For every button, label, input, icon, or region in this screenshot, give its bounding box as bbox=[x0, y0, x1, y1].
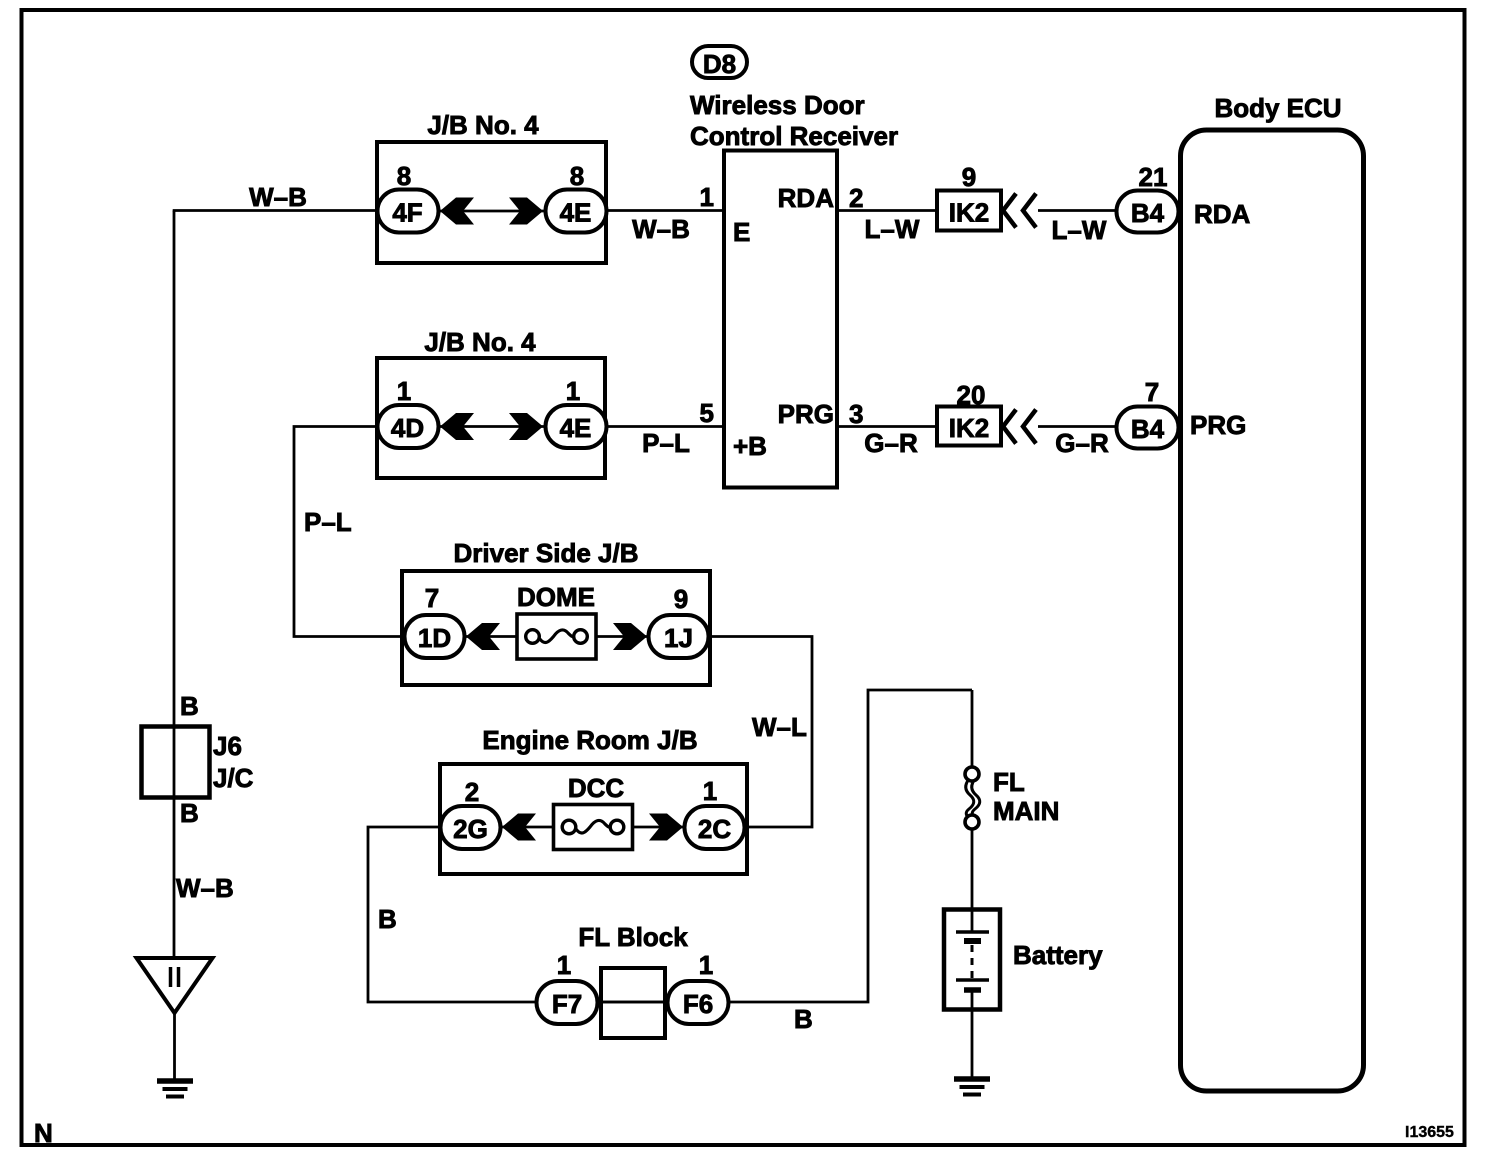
svg-text:8: 8 bbox=[570, 161, 584, 191]
Body ECU box bbox=[1181, 130, 1364, 1091]
wire W-B ground bus: left vertical run bbox=[173, 211, 176, 959]
svg-text:4D: 4D bbox=[391, 413, 424, 443]
svg-text:W–B: W–B bbox=[176, 873, 234, 903]
chevrons into IK2 (row 2) bbox=[1003, 410, 1036, 444]
fusible link FL MAIN bbox=[965, 767, 1059, 829]
arrow out of 1D bbox=[466, 623, 500, 650]
wire G-R from B4 to chevrons bbox=[1038, 425, 1118, 428]
svg-text:Engine Room J/B: Engine Room J/B bbox=[482, 725, 697, 755]
svg-text:1: 1 bbox=[699, 950, 713, 980]
ground (battery) bbox=[954, 1079, 990, 1095]
wire inside Driver Side J/B bbox=[463, 635, 650, 638]
wire W-L from 1J down to 2C bbox=[708, 637, 812, 828]
svg-text:I13655: I13655 bbox=[1405, 1124, 1454, 1141]
wire from battery to ground bbox=[971, 992, 974, 1079]
svg-text:Wireless Door: Wireless Door bbox=[690, 90, 865, 120]
svg-text:B: B bbox=[794, 1004, 813, 1034]
svg-text:1: 1 bbox=[703, 776, 717, 806]
svg-text:5: 5 bbox=[700, 398, 714, 428]
connector code D8 bbox=[692, 46, 747, 79]
battery bbox=[944, 910, 1103, 1010]
svg-text:J6: J6 bbox=[213, 731, 242, 761]
arrow out of 2G bbox=[502, 814, 536, 841]
svg-text:Body ECU: Body ECU bbox=[1214, 93, 1341, 123]
svg-text:8: 8 bbox=[397, 161, 411, 191]
svg-text:Control Receiver: Control Receiver bbox=[690, 121, 898, 151]
connector B4 (PRG) bbox=[1117, 407, 1179, 449]
svg-text:2G: 2G bbox=[453, 814, 488, 844]
svg-text:1: 1 bbox=[566, 376, 580, 406]
svg-text:G–R: G–R bbox=[864, 428, 918, 458]
chevrons into IK2 (row 1) bbox=[1003, 194, 1036, 228]
svg-text:3: 3 bbox=[849, 399, 863, 429]
connector 4F bbox=[378, 190, 439, 233]
wire from node down to FL MAIN bbox=[971, 690, 974, 768]
wire B from 2G down to FL block F7 bbox=[368, 827, 537, 1002]
svg-text:9: 9 bbox=[674, 584, 688, 614]
svg-text:P–L: P–L bbox=[642, 428, 690, 458]
svg-text:E: E bbox=[733, 217, 750, 247]
ground point II triangle bbox=[137, 958, 213, 1013]
wire P-L from 4D down to Driver Side J/B bbox=[294, 427, 405, 637]
svg-text:DOME: DOME bbox=[517, 582, 595, 612]
wire L-W from B4 to chevrons bbox=[1038, 209, 1118, 212]
arrow into 1J bbox=[613, 623, 647, 650]
svg-text:B4: B4 bbox=[1131, 198, 1165, 228]
connector F7 bbox=[537, 981, 598, 1024]
svg-text:P–L: P–L bbox=[304, 507, 352, 537]
svg-text:4E: 4E bbox=[560, 413, 592, 443]
svg-text:L–W: L–W bbox=[1052, 215, 1107, 245]
fusible link block FL Block bbox=[578, 922, 688, 952]
svg-text:B: B bbox=[180, 798, 199, 828]
svg-text:F6: F6 bbox=[683, 989, 713, 1019]
arrow into 2C bbox=[649, 814, 683, 841]
svg-text:RDA: RDA bbox=[1194, 199, 1251, 229]
wire L-W from receiver pin 2 to IK2 bbox=[837, 209, 937, 212]
svg-text:21: 21 bbox=[1139, 162, 1168, 192]
junction connector J6 J/C bbox=[142, 727, 254, 798]
svg-text:2C: 2C bbox=[698, 814, 731, 844]
svg-text:4E: 4E bbox=[560, 198, 592, 228]
svg-text:9: 9 bbox=[962, 162, 976, 192]
svg-text:F7: F7 bbox=[552, 989, 582, 1019]
FL block body bbox=[601, 968, 665, 1038]
svg-text:PRG: PRG bbox=[1190, 410, 1246, 440]
wire G-R from receiver pin 3 to IK2 bbox=[837, 425, 937, 428]
wire from triangle to ground bbox=[173, 1013, 176, 1081]
svg-text:Battery: Battery bbox=[1013, 940, 1103, 970]
splice IK2 (20) bbox=[937, 380, 1001, 446]
svg-text:1D: 1D bbox=[418, 623, 451, 653]
svg-text:D8: D8 bbox=[703, 49, 736, 79]
arrow into 4F bbox=[440, 198, 474, 225]
svg-text:1J: 1J bbox=[664, 623, 693, 653]
svg-text:1: 1 bbox=[557, 950, 571, 980]
svg-text:B: B bbox=[378, 904, 397, 934]
arrow into 4E (second) bbox=[509, 413, 543, 440]
wire W-B from ground bus to connector 4F bbox=[173, 209, 378, 212]
wire B from F6 up to battery node bbox=[728, 690, 972, 1002]
svg-text:N: N bbox=[34, 1118, 53, 1148]
receiver body box U:D8 bbox=[724, 151, 837, 488]
wire inside Engine Room J/B bbox=[500, 826, 686, 829]
svg-text:7: 7 bbox=[425, 583, 439, 613]
svg-text:FL Block: FL Block bbox=[578, 922, 688, 952]
connector 1J bbox=[649, 615, 709, 658]
connector 1D bbox=[405, 615, 465, 658]
svg-text:MAIN: MAIN bbox=[993, 796, 1059, 826]
svg-text:2: 2 bbox=[849, 183, 863, 213]
svg-text:B: B bbox=[180, 691, 199, 721]
ground (body ground) bbox=[157, 1081, 193, 1097]
wire W-B from 4E to receiver pin 1 bbox=[606, 209, 723, 212]
junction block J/B No. 4 (top) bbox=[377, 110, 606, 263]
svg-text:2: 2 bbox=[465, 777, 479, 807]
svg-text:Driver Side J/B: Driver Side J/B bbox=[454, 538, 639, 568]
svg-text:J/B No. 4: J/B No. 4 bbox=[427, 110, 539, 140]
junction block J/B No. 4 (second) bbox=[377, 327, 605, 478]
junction block Driver Side J/B bbox=[402, 538, 710, 685]
svg-text:W–B: W–B bbox=[249, 182, 307, 212]
connector B4 (RDA) bbox=[1117, 191, 1179, 233]
connector 4E (top row) bbox=[546, 190, 607, 233]
junction block Engine Room J/B bbox=[440, 725, 747, 874]
svg-text:7: 7 bbox=[1145, 377, 1159, 407]
wire inside J/B No.4 between 4F and 4E bbox=[438, 210, 547, 213]
svg-text:PRG: PRG bbox=[778, 399, 834, 429]
fuse DCC bbox=[554, 773, 633, 850]
svg-text:J/B No. 4: J/B No. 4 bbox=[424, 327, 536, 357]
svg-text:DCC: DCC bbox=[568, 773, 625, 803]
svg-text:4F: 4F bbox=[392, 198, 422, 228]
wire inside second J/B between 4D and 4E bbox=[438, 425, 547, 428]
svg-text:W–B: W–B bbox=[632, 214, 690, 244]
svg-text:J/C: J/C bbox=[213, 763, 254, 793]
arrow into 4E bbox=[509, 198, 543, 225]
svg-text:G–R: G–R bbox=[1055, 428, 1109, 458]
svg-text:IK2: IK2 bbox=[949, 413, 989, 443]
svg-text:RDA: RDA bbox=[778, 183, 835, 213]
svg-text:1: 1 bbox=[700, 182, 714, 212]
arrow into 4D bbox=[440, 413, 474, 440]
svg-text:+B: +B bbox=[733, 431, 767, 461]
svg-text:FL: FL bbox=[993, 767, 1025, 797]
wire P-L from 4E to receiver pin 5 bbox=[606, 425, 723, 428]
svg-text:L–W: L–W bbox=[865, 214, 920, 244]
connector 2C bbox=[685, 806, 745, 849]
wire through FL block bbox=[598, 1001, 668, 1004]
fuse DOME bbox=[517, 582, 596, 659]
connector F6 bbox=[668, 981, 729, 1024]
svg-text:1: 1 bbox=[397, 376, 411, 406]
connector 4D bbox=[378, 405, 439, 448]
svg-text:W–L: W–L bbox=[752, 712, 807, 742]
connector 2G bbox=[441, 806, 501, 849]
splice IK2 (9) bbox=[937, 162, 1001, 231]
svg-text:B4: B4 bbox=[1131, 414, 1165, 444]
connector 4E (second row) bbox=[546, 405, 607, 448]
svg-text:IK2: IK2 bbox=[949, 198, 989, 228]
wire from FL MAIN to battery bbox=[971, 829, 974, 932]
